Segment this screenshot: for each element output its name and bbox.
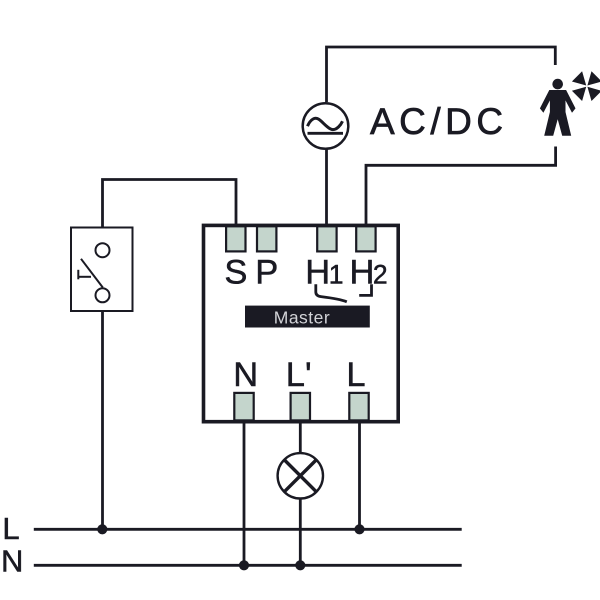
wire from lamp down to N line: [299, 499, 302, 566]
power supply U2 AC/DC source symbol: [303, 103, 349, 149]
svg-text:P: P: [255, 253, 278, 291]
junction dot lamp-N: [295, 560, 305, 570]
terminal L': [291, 393, 310, 421]
svg-text:L': L': [286, 356, 312, 394]
N mains line: [34, 564, 462, 567]
lamp E1: [278, 453, 323, 498]
wire from terminal L down to L line: [358, 422, 361, 530]
wire from terminal N down to N line: [243, 422, 246, 566]
svg-text:L: L: [2, 511, 19, 546]
terminal N: [234, 393, 253, 421]
svg-text:N: N: [233, 356, 258, 394]
wire from switch down to L line: [101, 311, 104, 529]
svg-text:AC/DC: AC/DC: [370, 101, 508, 142]
wire top loop from AC/DC source to presence sensor: [327, 47, 556, 102]
terminal H1: [317, 226, 336, 251]
terminal S: [226, 226, 245, 251]
junction dot L terminal-L: [354, 524, 364, 534]
switch S1 push-button: [71, 228, 133, 312]
svg-text:L: L: [346, 356, 365, 394]
svg-text:Master: Master: [274, 307, 330, 327]
junction dot N terminal-N: [239, 560, 249, 570]
wire from AC/DC source down to terminal H1: [325, 149, 328, 225]
wire from person down to terminal H2: [366, 147, 556, 226]
terminal H2: [356, 226, 375, 251]
L mains line: [34, 528, 462, 531]
svg-text:N: N: [1, 543, 23, 578]
terminal P: [257, 226, 276, 251]
Master badge: [245, 306, 370, 328]
svg-text:H2: H2: [350, 253, 388, 291]
svg-text:S: S: [224, 253, 247, 291]
svg-text:H1: H1: [305, 253, 343, 291]
star asterisk mark: [572, 71, 600, 101]
terminal L: [349, 393, 368, 421]
wire from switch to terminal S: [103, 180, 237, 228]
wire from terminal L' down to lamp: [299, 422, 302, 454]
person icon (applied part / presence): [540, 79, 576, 136]
junction dot switch-L: [97, 524, 107, 534]
internal relay contact between H1 and H2: [316, 284, 372, 302]
device box Master: [204, 225, 399, 421]
